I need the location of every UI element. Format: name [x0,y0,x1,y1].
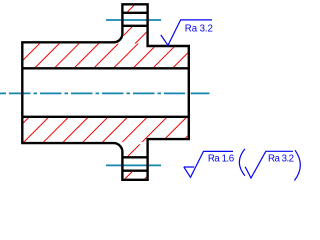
bore line top [22,67,189,69]
roughness symbol Ra 3.2 top: checkmark [161,20,212,45]
svg-text:Ra 3.2: Ra 3.2 [268,153,294,164]
section hatching lower wall left [24,118,147,142]
section hatching flange bottom inner strip [124,144,147,156]
part outline [22,4,189,180]
main axis centerline [0,92,185,94]
flange hole bottom edge (upper) [122,156,147,158]
section hatching upper wall right [146,47,187,67]
main axis centerline lead dash [0,92,3,94]
flange hole top edge (upper) [122,12,147,14]
section hatching flange bottom outer strip [124,172,147,179]
flange hole axis bottom [106,164,161,166]
roughness symbol Ra 1.6: checkmark with triangle [184,151,233,177]
flange hole top edge (lower) [122,25,147,27]
section hatching lower wall right [146,118,187,138]
left parenthesis [239,149,245,176]
roughness symbol Ra 3.2 in parentheses: checkmark [245,151,293,178]
bore line bottom [22,116,189,118]
right parenthesis [295,150,301,180]
main axis centerline end dash [191,92,210,94]
flange hole axis top [106,19,161,21]
svg-text:Ra 1.6: Ra 1.6 [208,153,234,164]
section hatching flange top inner strip [124,27,147,44]
section hatching upper wall left [24,44,147,68]
flange hole bottom edge (lower) [122,169,147,171]
section hatching flange top outer strip [124,6,147,12]
svg-text:Ra 3.2: Ra 3.2 [185,23,213,34]
